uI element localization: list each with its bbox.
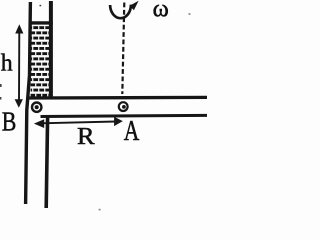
svg-text:B: B bbox=[2, 106, 17, 136]
svg-text:h: h bbox=[1, 50, 13, 76]
svg-text:ω: ω bbox=[153, 0, 169, 23]
svg-text:A: A bbox=[124, 116, 140, 147]
svg-text:R: R bbox=[77, 124, 95, 150]
